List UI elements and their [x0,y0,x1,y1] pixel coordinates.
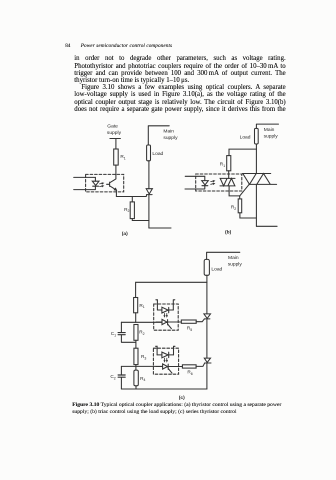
label C2 [110,374,115,380]
LED input hooks stage2 [156,346,175,355]
label R1 c [139,303,144,309]
wire R2 hang [131,197,133,202]
wire load to thyristor 1 [206,275,208,314]
label R2 b [231,205,236,211]
photo-SCR U3 output [156,319,181,328]
wire R1c to node A [135,313,137,323]
photo-SCR U4 output [156,364,182,373]
wire branch to stage 2 node B [121,365,162,371]
thyristor SCR2 [204,314,211,319]
resistor R5 [181,320,196,323]
svg-text:C2: C2 [110,374,115,380]
wire LED cathode [74,186,96,189]
wire thyristor2 cathode down [206,363,208,389]
wire branch to stage 1 [136,282,207,297]
label C1 [111,331,116,337]
svg-text:R3: R3 [141,354,146,360]
svg-text:R2: R2 [231,205,236,211]
svg-text:supply: supply [264,133,279,139]
wire C2 branch down [120,366,122,374]
wire LED input anode [74,177,96,181]
optocoupler U2 dashed box [196,174,242,191]
capacitor C2 [118,375,125,377]
label R3 [141,354,146,360]
optocoupler U1 dashed box [86,174,124,192]
resistor R1 b [227,156,231,171]
label R2 [124,207,129,213]
optocoupler U3 dashed box [154,304,179,330]
wire LED b anode [185,176,205,180]
label Load [152,151,163,157]
label (a) [122,231,128,237]
phototransistor Q1 [107,179,117,190]
wire main supply top b [256,124,278,128]
resistor R2 [130,202,134,219]
label R1 b [220,162,225,168]
light arrows down c2 [164,358,168,361]
wire R6 to gate 2 [196,363,205,366]
optocoupler U4 dashed box [153,348,178,374]
svg-text:R4: R4 [140,376,145,382]
wire between thyristors [206,319,208,358]
wire bottom rail [149,227,171,229]
resistor R2 b [238,199,242,213]
wire LED2c leads [157,354,173,356]
LED D3 [162,307,169,313]
bottom rail c [121,388,206,390]
LED D2 [202,181,209,186]
LED D4 [162,352,169,358]
label R4 [140,376,145,382]
wire R2 b top [239,196,241,199]
svg-text:R1: R1 [120,154,125,160]
wire triac anode [255,149,257,173]
svg-text:supply: supply [228,262,243,268]
label R6 [187,370,192,376]
svg-text:R5: R5 [187,325,192,331]
capacitor C1 [118,333,125,335]
wire triac cathode down [255,184,257,226]
wire load bottom junction [255,144,257,149]
wire R2 b bottom [240,213,257,218]
svg-text:supply: supply [107,130,122,136]
label Gate supply [107,124,122,137]
label Main supply b [264,127,279,140]
label R2 c [139,330,144,336]
label Load b [240,135,251,141]
svg-text:R1: R1 [220,162,225,168]
svg-text:(c): (c) [179,395,185,401]
wire C1 branch down [120,322,122,332]
wire triac gate [240,184,250,196]
svg-text:(a): (a) [122,231,128,237]
resistor R6 [182,365,196,368]
resistor Load c [204,259,209,275]
svg-text:Main: Main [264,127,275,133]
resistor Load [147,145,151,161]
LED input hooks stage1 [156,300,175,310]
svg-text:C1: C1 [111,331,116,337]
wire branch to R1 [229,149,256,156]
svg-text:R1: R1 [139,303,144,309]
svg-text:Load: Load [152,151,163,157]
gate supply terminal [110,138,121,140]
resistor R1 [114,149,119,165]
resistor R2 c [134,325,138,341]
svg-text:R2: R2 [139,330,144,336]
svg-text:(b): (b) [225,230,232,236]
wire R1 to photo-triac [228,171,230,179]
node A rail [121,321,162,323]
light arrows [100,183,104,187]
triac TR1 [243,174,277,185]
svg-text:Load: Load [211,267,222,273]
wire R5 to gate 1 [196,319,204,322]
wire gate rail [116,195,146,197]
wire Load to thyristor [148,161,150,189]
photo-triac U2 output element [220,178,235,186]
svg-text:Main: Main [228,255,239,261]
thyristor SCR3 [204,358,211,363]
svg-text:R2: R2 [124,207,129,213]
wire cathode down [148,195,150,228]
svg-text:supply: supply [163,135,178,141]
wire R2c bottom to R3 [135,340,137,348]
wire emitter down [115,190,117,196]
wire [115,139,117,150]
wire LED b cathode [185,186,205,189]
LED D1 [92,181,99,186]
wire R1 to optocoupler [115,165,117,179]
svg-text:Main: Main [163,129,174,135]
light arrows b [211,181,215,185]
label Main supply [163,129,178,142]
svg-text:Gate: Gate [107,124,118,130]
light arrows down c1 [164,313,168,316]
label Main supply c [228,255,243,268]
label R5 [187,325,192,331]
resistor R1 c [134,298,138,313]
wire bottom rail b [256,225,277,227]
thyristor SCR1 [146,189,152,195]
svg-text:Load: Load [240,135,251,141]
label Load c [211,267,222,273]
wire C1 bottom [121,335,135,342]
wire C2 bottom [120,378,122,389]
label (c) [179,395,185,401]
label (b) [225,230,232,236]
wire LED1c leads [157,309,173,311]
resistor Load b [255,128,259,144]
wire R2 bottom [132,219,149,221]
wire node A into box [161,321,163,323]
svg-text:R6: R6 [187,370,192,376]
wire main supply top c [207,252,240,259]
wire photo-triac output [229,186,239,196]
wire main supply top [148,126,169,145]
resistor R4 [134,370,138,386]
wire R4 bottom [135,386,137,389]
resistor R3 [134,348,138,364]
label R1 [120,154,125,160]
